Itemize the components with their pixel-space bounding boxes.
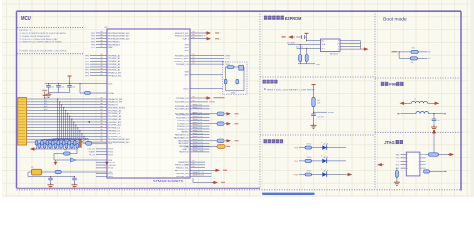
svg-text:104: 104 [72, 87, 75, 89]
svg-text:BOOT0: BOOT0 [175, 170, 191, 172]
svg-text:PB2/BOOT1: PB2/BOOT1 [108, 105, 118, 107]
svg-text:L1: L1 [414, 99, 416, 101]
svg-text:USART1_TX: USART1_TX [194, 171, 205, 174]
svg-text:o: o [418, 168, 419, 170]
svg-text:FSMC_D1: FSMC_D1 [194, 107, 202, 109]
svg-text:PF6: PF6 [85, 73, 88, 75]
svg-text:I2C_SDA: I2C_SDA [287, 42, 295, 45]
svg-text:o: o [407, 161, 408, 163]
svg-text:R 510: R 510 [307, 157, 312, 159]
svg-text:RESET: RESET [328, 112, 335, 114]
svg-text:o: o [407, 154, 408, 156]
svg-text:PG13: PG13 [108, 149, 113, 151]
svg-text:PB1/ADC12_IN9: PB1/ADC12_IN9 [108, 101, 122, 104]
svg-text:PE3: PE3 [91, 36, 95, 38]
svg-text:104: 104 [51, 87, 54, 89]
svg-text:OSCO: OSCO [183, 88, 189, 90]
svg-text:PD15/FSMC_D1: PD15/FSMC_D1 [176, 117, 189, 119]
svg-text:PA14/JTCK: PA14/JTCK [179, 151, 189, 154]
svg-text:PC6/SDIO_D6: PC6/SDIO_D6 [177, 120, 189, 122]
svg-text:PG14: PG14 [108, 152, 113, 154]
svg-text:PE4: PE4 [91, 39, 95, 41]
svg-text:o: o [407, 168, 408, 170]
svg-text:NRST: NRST [108, 176, 114, 178]
svg-text:PE2: PE2 [91, 33, 95, 35]
svg-text:PE8/FSMC_D5: PE8/FSMC_D5 [108, 130, 120, 132]
svg-text:PC15: PC15 [108, 173, 113, 175]
svg-text:FSMC_D4: FSMC_D4 [194, 116, 202, 118]
svg-text:PB5: PB5 [294, 148, 298, 150]
svg-text:C20 104: C20 104 [317, 117, 323, 119]
svg-text:PG1/FSMC_A11: PG1/FSMC_A11 [108, 124, 121, 127]
svg-text:TDI: TDI [396, 161, 399, 163]
svg-text:PB5/I2C1_SMBA: PB5/I2C1_SMBA [175, 164, 189, 167]
svg-text:PE2/TRACECK/FSMC_A23: PE2/TRACECK/FSMC_A23 [108, 32, 130, 35]
svg-text:PB1: PB1 [108, 143, 112, 145]
svg-text:Boot mode: Boot mode [383, 17, 407, 22]
svg-text:o: o [418, 158, 419, 160]
svg-text:PE10/FSMC_D7: PE10/FSMC_D7 [108, 136, 121, 138]
svg-text:PA9/USART1_TX: PA9/USART1_TX [175, 134, 189, 137]
svg-text:BT1: BT1 [91, 47, 94, 49]
svg-text:PE6/TRACED3: PE6/TRACED3 [108, 43, 120, 46]
svg-text:VSS: VSS [185, 50, 190, 52]
svg-text:8MHz: 8MHz [231, 93, 236, 95]
svg-text:PF5/FSMC_A5: PF5/FSMC_A5 [108, 69, 120, 72]
svg-text:PF13/FSMC_A7: PF13/FSMC_A7 [108, 112, 121, 115]
svg-text:PE5/TRACED2: PE5/TRACED2 [108, 40, 120, 43]
svg-text:PB15/SPI2_MOSI: PB15/SPI2_MOSI [174, 61, 189, 63]
svg-text:A0: A0 [322, 39, 324, 42]
svg-text:FSMC_D15: FSMC_D15 [194, 148, 203, 150]
svg-text:PF7: PF7 [85, 75, 88, 77]
svg-text:B1: B1 [428, 58, 430, 60]
svg-text:LCD_CS: LCD_CS [87, 149, 95, 151]
svg-text:o: o [407, 158, 408, 160]
svg-text:NJRST: NJRST [209, 102, 216, 104]
svg-text:PB13/SPI2_SCK: PB13/SPI2_SCK [175, 55, 189, 57]
svg-text:1. MCU STM32F103ZET6 LQFP144 A: 1. MCU STM32F103ZET6 LQFP144 ARM [20, 32, 66, 35]
svg-text:FSMC_NOE: FSMC_NOE [194, 151, 205, 153]
svg-text:PF3/FSMC_A3: PF3/FSMC_A3 [108, 63, 120, 66]
svg-text:AD4: AD4 [44, 108, 47, 111]
svg-text:TDO: TDO [396, 165, 400, 167]
svg-text:PA8/MCO: PA8/MCO [181, 131, 189, 134]
svg-text:R4: R4 [317, 100, 319, 102]
svg-text:PE6: PE6 [91, 44, 95, 46]
svg-text:NRST 10K+104 RESET LOW NRST: NRST 10K+104 RESET LOW NRST [267, 90, 316, 92]
svg-text:PF4: PF4 [85, 67, 88, 69]
svg-text:o: o [418, 154, 419, 156]
svg-text:PC8/SDIO_D0: PC8/SDIO_D0 [177, 126, 189, 128]
svg-text:PB4/NJTRST: PB4/NJTRST [178, 162, 189, 164]
svg-text:GND: GND [316, 64, 321, 66]
svg-text:PF5: PF5 [85, 70, 88, 72]
svg-text:JTMS: JTMS [225, 55, 231, 57]
svg-text:AT24C02: AT24C02 [330, 53, 338, 56]
svg-text:104: 104 [61, 87, 64, 89]
svg-text:PG15: PG15 [108, 155, 113, 157]
svg-text:FSMC_D10: FSMC_D10 [194, 133, 203, 135]
svg-text:OSC32O: OSC32O [108, 165, 116, 167]
svg-text:PD10/FSMC_D15: PD10/FSMC_D15 [175, 102, 189, 104]
svg-text:PD12/FSMC_A17: PD12/FSMC_A17 [175, 108, 189, 111]
svg-text:MCU: MCU [21, 16, 31, 22]
svg-text:PB9/TIM4_CH4: PB9/TIM4_CH4 [176, 176, 189, 178]
svg-text:VSS: VSS [185, 44, 190, 46]
svg-text:VDD: VDD [184, 47, 189, 49]
svg-text:2. FLASH 512KB SRAM 64KB: 2. FLASH 512KB SRAM 64KB [20, 35, 51, 38]
svg-text:JTCK: JTCK [225, 58, 230, 60]
svg-text:FSMC_D5: FSMC_D5 [194, 119, 202, 121]
svg-text:E2PROM: E2PROM [285, 16, 302, 21]
svg-text:PF11/FSMC_NIOS16: PF11/FSMC_NIOS16 [108, 107, 126, 109]
svg-text:JTAG: JTAG [384, 140, 395, 145]
svg-text:PF1: PF1 [85, 58, 88, 60]
svg-text:PA12/USBDP: PA12/USBDP [178, 142, 189, 145]
svg-text:PE7/FSMC_D4: PE7/FSMC_D4 [108, 128, 120, 130]
svg-text:PE2/TRACECK/FSMC_A23: PE2/TRACECK/FSMC_A23 [108, 138, 130, 141]
svg-text:PB10/I2C2_SCL: PB10/I2C2_SCL [175, 33, 189, 35]
svg-text:PWR: PWR [294, 174, 299, 176]
svg-text:PA10/USART1_RX: PA10/USART1_RX [174, 136, 189, 139]
svg-text:PF2/FSMC_A2: PF2/FSMC_A2 [108, 60, 120, 63]
svg-text:OSC32I: OSC32I [108, 162, 115, 164]
svg-text:3. SYSCLK = 72MHz HSE 8MHz XTA: 3. SYSCLK = 72MHz HSE 8MHz XTAL [20, 38, 59, 41]
svg-text:PB11/I2C2_SDA: PB11/I2C2_SDA [175, 35, 189, 38]
svg-text:FSMC_D8: FSMC_D8 [194, 128, 202, 130]
svg-text:PF3: PF3 [85, 64, 88, 66]
svg-text:FB2: FB2 [64, 150, 67, 152]
svg-text:PF4/FSMC_A4: PF4/FSMC_A4 [108, 66, 120, 69]
svg-text:PD11/FSMC_A16: PD11/FSMC_A16 [175, 105, 189, 108]
svg-text:PF7/ADC3_IN5: PF7/ADC3_IN5 [108, 74, 121, 77]
svg-text:C8: C8 [437, 120, 439, 122]
svg-text:AD1: AD1 [44, 99, 47, 102]
svg-text:FSMC_D11: FSMC_D11 [194, 136, 203, 138]
svg-text:PC9/SDIO_D1: PC9/SDIO_D1 [177, 129, 189, 131]
svg-text:PF2: PF2 [85, 61, 88, 63]
svg-text:NOTE : 1: NOTE : 1 [20, 30, 33, 32]
svg-text:PB0/ADC12_IN8: PB0/ADC12_IN8 [108, 98, 122, 101]
svg-text:o: o [407, 164, 408, 166]
svg-text:PF14/FSMC_A8: PF14/FSMC_A8 [108, 115, 121, 118]
svg-text:PB8/TIM4_CH3: PB8/TIM4_CH3 [176, 173, 189, 175]
svg-text:AD2: AD2 [44, 102, 47, 105]
svg-text:FSMC_D0: FSMC_D0 [194, 105, 202, 107]
svg-text:F96: F96 [389, 82, 397, 87]
svg-text:PE5: PE5 [294, 161, 298, 163]
svg-text:VBAT: VBAT [108, 46, 113, 49]
svg-text:AD0: AD0 [44, 97, 47, 100]
svg-text:o: o [418, 161, 419, 163]
svg-text:VCAP_1: VCAP_1 [182, 38, 189, 41]
svg-text:FSMC_D3: FSMC_D3 [194, 113, 202, 115]
svg-text:AD3: AD3 [44, 105, 47, 108]
svg-text:PD14/FSMC_D0: PD14/FSMC_D0 [176, 114, 189, 116]
svg-text:PF1/FSMC_A1: PF1/FSMC_A1 [108, 57, 120, 60]
svg-text:PF6/ADC3_IN4: PF6/ADC3_IN4 [108, 72, 121, 75]
svg-text:PD8/FSMC_D13: PD8/FSMC_D13 [176, 64, 189, 66]
svg-text:PC14: PC14 [108, 168, 113, 170]
svg-text:R 510: R 510 [307, 171, 312, 173]
svg-text:PE9/FSMC_D6: PE9/FSMC_D6 [108, 133, 120, 135]
svg-text:VDDA: VDDA [108, 92, 114, 95]
svg-text:o: o [418, 164, 419, 166]
svg-text:PF0: PF0 [85, 55, 88, 57]
svg-text:FSMC_D12: FSMC_D12 [194, 139, 203, 141]
svg-text:TP_CS: TP_CS [89, 155, 96, 157]
svg-text:VDD: VDD [108, 83, 113, 85]
svg-text:PF12/FSMC_A6: PF12/FSMC_A6 [108, 109, 121, 112]
svg-text:PE4/TRACED1/FSMC_A20: PE4/TRACED1/FSMC_A20 [108, 38, 130, 41]
svg-text:I2C_SCL: I2C_SCL [296, 46, 303, 48]
svg-text:USART1_RX: USART1_RX [194, 174, 205, 177]
svg-text:PE5: PE5 [91, 41, 95, 43]
svg-text:STM32F103ZET6: STM32F103ZET6 [153, 181, 184, 183]
svg-text:FSMC_D13: FSMC_D13 [194, 142, 203, 144]
svg-text:PD9/FSMC_D14: PD9/FSMC_D14 [176, 98, 189, 100]
svg-text:SCL: SCL [322, 48, 325, 50]
svg-text:PB14/SPI2_MISO: PB14/SPI2_MISO [174, 58, 189, 60]
svg-text:B0: B0 [428, 52, 430, 54]
svg-text:FSMC_D7: FSMC_D7 [194, 125, 202, 127]
svg-text:FLASH: FLASH [89, 151, 96, 154]
svg-text:PF15/FSMC_A9: PF15/FSMC_A9 [108, 118, 121, 121]
svg-text:PG0/FSMC_A10: PG0/FSMC_A10 [108, 121, 121, 124]
svg-text:PF0/FSMC_A0: PF0/FSMC_A0 [108, 54, 120, 57]
svg-text:POWER: VDD=3.3V VDDA VREF+ D: POWER: VDD=3.3V VDDA VREF+ DECOUPLE [20, 50, 68, 53]
svg-text:OSCI: OSCI [184, 75, 189, 77]
svg-text:4. VBAT RTC32.768KHz BACKUP S: 4. VBAT RTC32.768KHz BACKUP SRAM [20, 41, 62, 44]
svg-text:FSMC_D9: FSMC_D9 [194, 130, 202, 132]
svg-text:R 510: R 510 [307, 144, 312, 146]
svg-text:VSS: VSS [185, 72, 190, 74]
svg-text:PE3/TRACED0/FSMC_A19: PE3/TRACED0/FSMC_A19 [108, 35, 130, 38]
